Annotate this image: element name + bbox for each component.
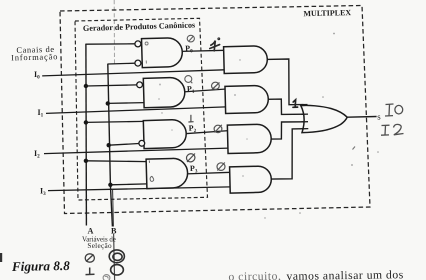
wire B to P2 bottom input xyxy=(109,144,139,146)
svg-text:Informação: Informação xyxy=(11,52,58,62)
svg-text:Gerador de Produtos Canônicos: Gerador de Produtos Canônicos xyxy=(83,20,196,33)
pencil tick right of OR xyxy=(353,147,356,150)
pencil mark Q right of box near R2 wire xyxy=(212,82,220,89)
wire R1 output to OR input 1 xyxy=(266,59,304,105)
P0 input bubble bottom xyxy=(135,60,141,66)
svg-text:P3: P3 xyxy=(190,164,198,175)
P0 input bubble top xyxy=(135,41,141,47)
svg-text:s: s xyxy=(377,111,381,121)
AND gate P0 (both inputs inverted) xyxy=(142,38,183,68)
pencil cluster: perpendicular symbol xyxy=(86,268,95,275)
wire select A vertical xyxy=(85,44,88,226)
pencil note I0 right of s xyxy=(385,104,403,116)
P1 input bubble top xyxy=(137,82,143,88)
wire P2 output to and I2 gate xyxy=(185,131,229,134)
scan specks xyxy=(161,33,379,219)
wire I2 xyxy=(44,148,228,154)
pencil note I 2 below s xyxy=(381,124,404,135)
pencil mark T above P2 xyxy=(188,115,193,122)
wire A to P3 top input xyxy=(86,160,147,163)
pencil mark O-slash right of P3 wire xyxy=(217,163,225,171)
svg-text:I3: I3 xyxy=(40,187,46,198)
svg-text:I0: I0 xyxy=(34,70,40,81)
svg-text:B: B xyxy=(111,226,117,235)
junction B-P3 xyxy=(108,183,112,187)
svg-text:MULTIPLEX: MULTIPLEX xyxy=(303,8,351,18)
wire B lower segment xyxy=(110,185,112,227)
AND gate P2 (bottom input inverted) xyxy=(143,119,186,148)
pencil micro marks inside P0 xyxy=(145,42,148,64)
wire OR output to s xyxy=(347,116,376,119)
AND gate R4 (I3 channel) xyxy=(230,166,272,193)
svg-text:I1: I1 xyxy=(38,108,44,119)
Canais de Informacao label xyxy=(11,45,59,63)
pencil mark leaf above P3 xyxy=(185,152,196,163)
pencil line B continuation below xyxy=(114,234,115,280)
pencil cluster below selection: circle a xyxy=(85,254,94,262)
wire A to P2 top input xyxy=(86,121,144,122)
pencil cluster: big double ring xyxy=(109,250,124,263)
wire R4 output to OR input 4 xyxy=(270,129,306,179)
pencil delta inside P3 xyxy=(149,161,153,182)
P2 input bubble bottom xyxy=(139,140,145,146)
faint interior smudges xyxy=(158,84,248,177)
svg-text:P0: P0 xyxy=(185,44,193,55)
pencil mark O-slash right of P2 wire xyxy=(214,125,222,133)
svg-text:P1: P1 xyxy=(187,84,195,95)
outer dashed box MULTIPLEX xyxy=(60,6,370,214)
pencil mark circle above P1 xyxy=(185,76,193,84)
pencil mark 1' right of P0 xyxy=(210,38,220,51)
AND gate R3 (I2 channel) xyxy=(227,124,271,153)
wire R3 output to OR input 3 xyxy=(270,122,306,139)
wire B to P0 bottom input xyxy=(108,62,135,65)
wire P3 output to and I3 gate xyxy=(186,172,231,174)
svg-text:Figura 8.8: Figura 8.8 xyxy=(11,258,71,274)
pencil cluster: small c mark xyxy=(103,275,110,280)
wire I0 xyxy=(42,70,224,76)
wire A to P0 top input xyxy=(86,43,135,45)
AND gate R1 (I0 channel) xyxy=(224,46,268,74)
junction B-P1 xyxy=(106,101,110,105)
junction A-P3 xyxy=(84,159,88,163)
AND gate P1 (top input inverted) xyxy=(143,77,185,108)
pencil vertical guide line through B xyxy=(113,0,115,64)
AND gate P3 (no inversion) xyxy=(146,158,188,189)
wire I3 xyxy=(48,187,231,191)
Variaveis de Selecao label xyxy=(82,236,116,250)
wire P0 output to and I0 gate xyxy=(181,50,225,51)
AND gate R2 (I1 channel) xyxy=(225,85,269,113)
pencil cluster: lower oval ring xyxy=(111,265,124,275)
pencil mark 1 near OR input xyxy=(293,100,298,108)
junction A-P2 xyxy=(84,120,88,124)
inner dashed box Gerador de Produtos Canonicos xyxy=(75,18,208,200)
wire B to P1 bottom input xyxy=(108,102,144,105)
wire select B vertical xyxy=(108,64,111,185)
svg-text:vamos analisar um dos: vamos analisar um dos xyxy=(286,268,403,280)
wire P1 output to and I1 gate xyxy=(184,89,227,92)
stray ink mark left margin xyxy=(0,253,2,262)
wire A to P1 top input xyxy=(86,85,137,86)
pencil mark circle above P0 xyxy=(187,35,194,42)
junction B-P2 xyxy=(107,143,111,147)
junction A-P1 xyxy=(84,84,88,88)
wire B to P3 bottom input xyxy=(110,183,147,186)
svg-text:I2: I2 xyxy=(34,149,40,160)
wire R2 output to OR input 2 xyxy=(267,99,306,114)
svg-text:A: A xyxy=(88,226,94,235)
OR gate U1 xyxy=(301,105,347,132)
svg-text:o circuito,: o circuito, xyxy=(228,270,281,280)
wire B doubled segment xyxy=(112,190,115,227)
OR input stubs xyxy=(301,105,308,129)
wire I1 xyxy=(46,107,226,114)
svg-text:Seleção: Seleção xyxy=(87,242,112,250)
